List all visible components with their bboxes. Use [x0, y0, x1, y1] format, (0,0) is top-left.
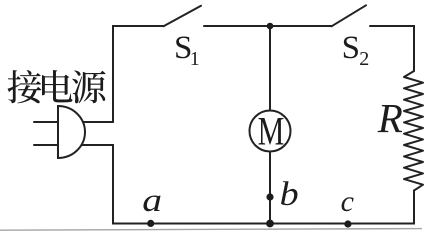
- junction dot bottom: [266, 220, 274, 228]
- label 接电源: [8, 70, 106, 103]
- wire top-right: [370, 26, 414, 71]
- node c dot: [344, 220, 351, 227]
- svg-text:c: c: [341, 185, 354, 218]
- switch S1 blade: [164, 6, 202, 27]
- resistor R zigzag: [404, 71, 423, 191]
- motor circle U1: [250, 111, 291, 152]
- svg-text:b: b: [280, 175, 299, 213]
- motor branch bottom wire: [269, 152, 271, 224]
- svg-text:M: M: [258, 108, 285, 153]
- node b dot: [266, 193, 273, 200]
- wire plug top: [78, 121, 113, 123]
- svg-text:1: 1: [190, 48, 200, 70]
- scan artifact line bottom: [0, 229, 422, 231]
- svg-text:S: S: [342, 30, 360, 66]
- wire top-left: [113, 26, 164, 122]
- junction dot top: [267, 23, 274, 30]
- motor branch top wire: [269, 26, 271, 111]
- plug prong top: [34, 121, 58, 123]
- wire top-middle: [204, 25, 332, 27]
- svg-text:a: a: [142, 182, 162, 218]
- svg-text:2: 2: [359, 48, 369, 70]
- node a dot: [147, 220, 154, 227]
- plug prong bottom: [34, 144, 58, 146]
- wire right-bottom: [78, 145, 414, 224]
- switch S2 blade: [332, 5, 367, 26]
- svg-text:R: R: [377, 95, 403, 141]
- plug body: [58, 106, 85, 158]
